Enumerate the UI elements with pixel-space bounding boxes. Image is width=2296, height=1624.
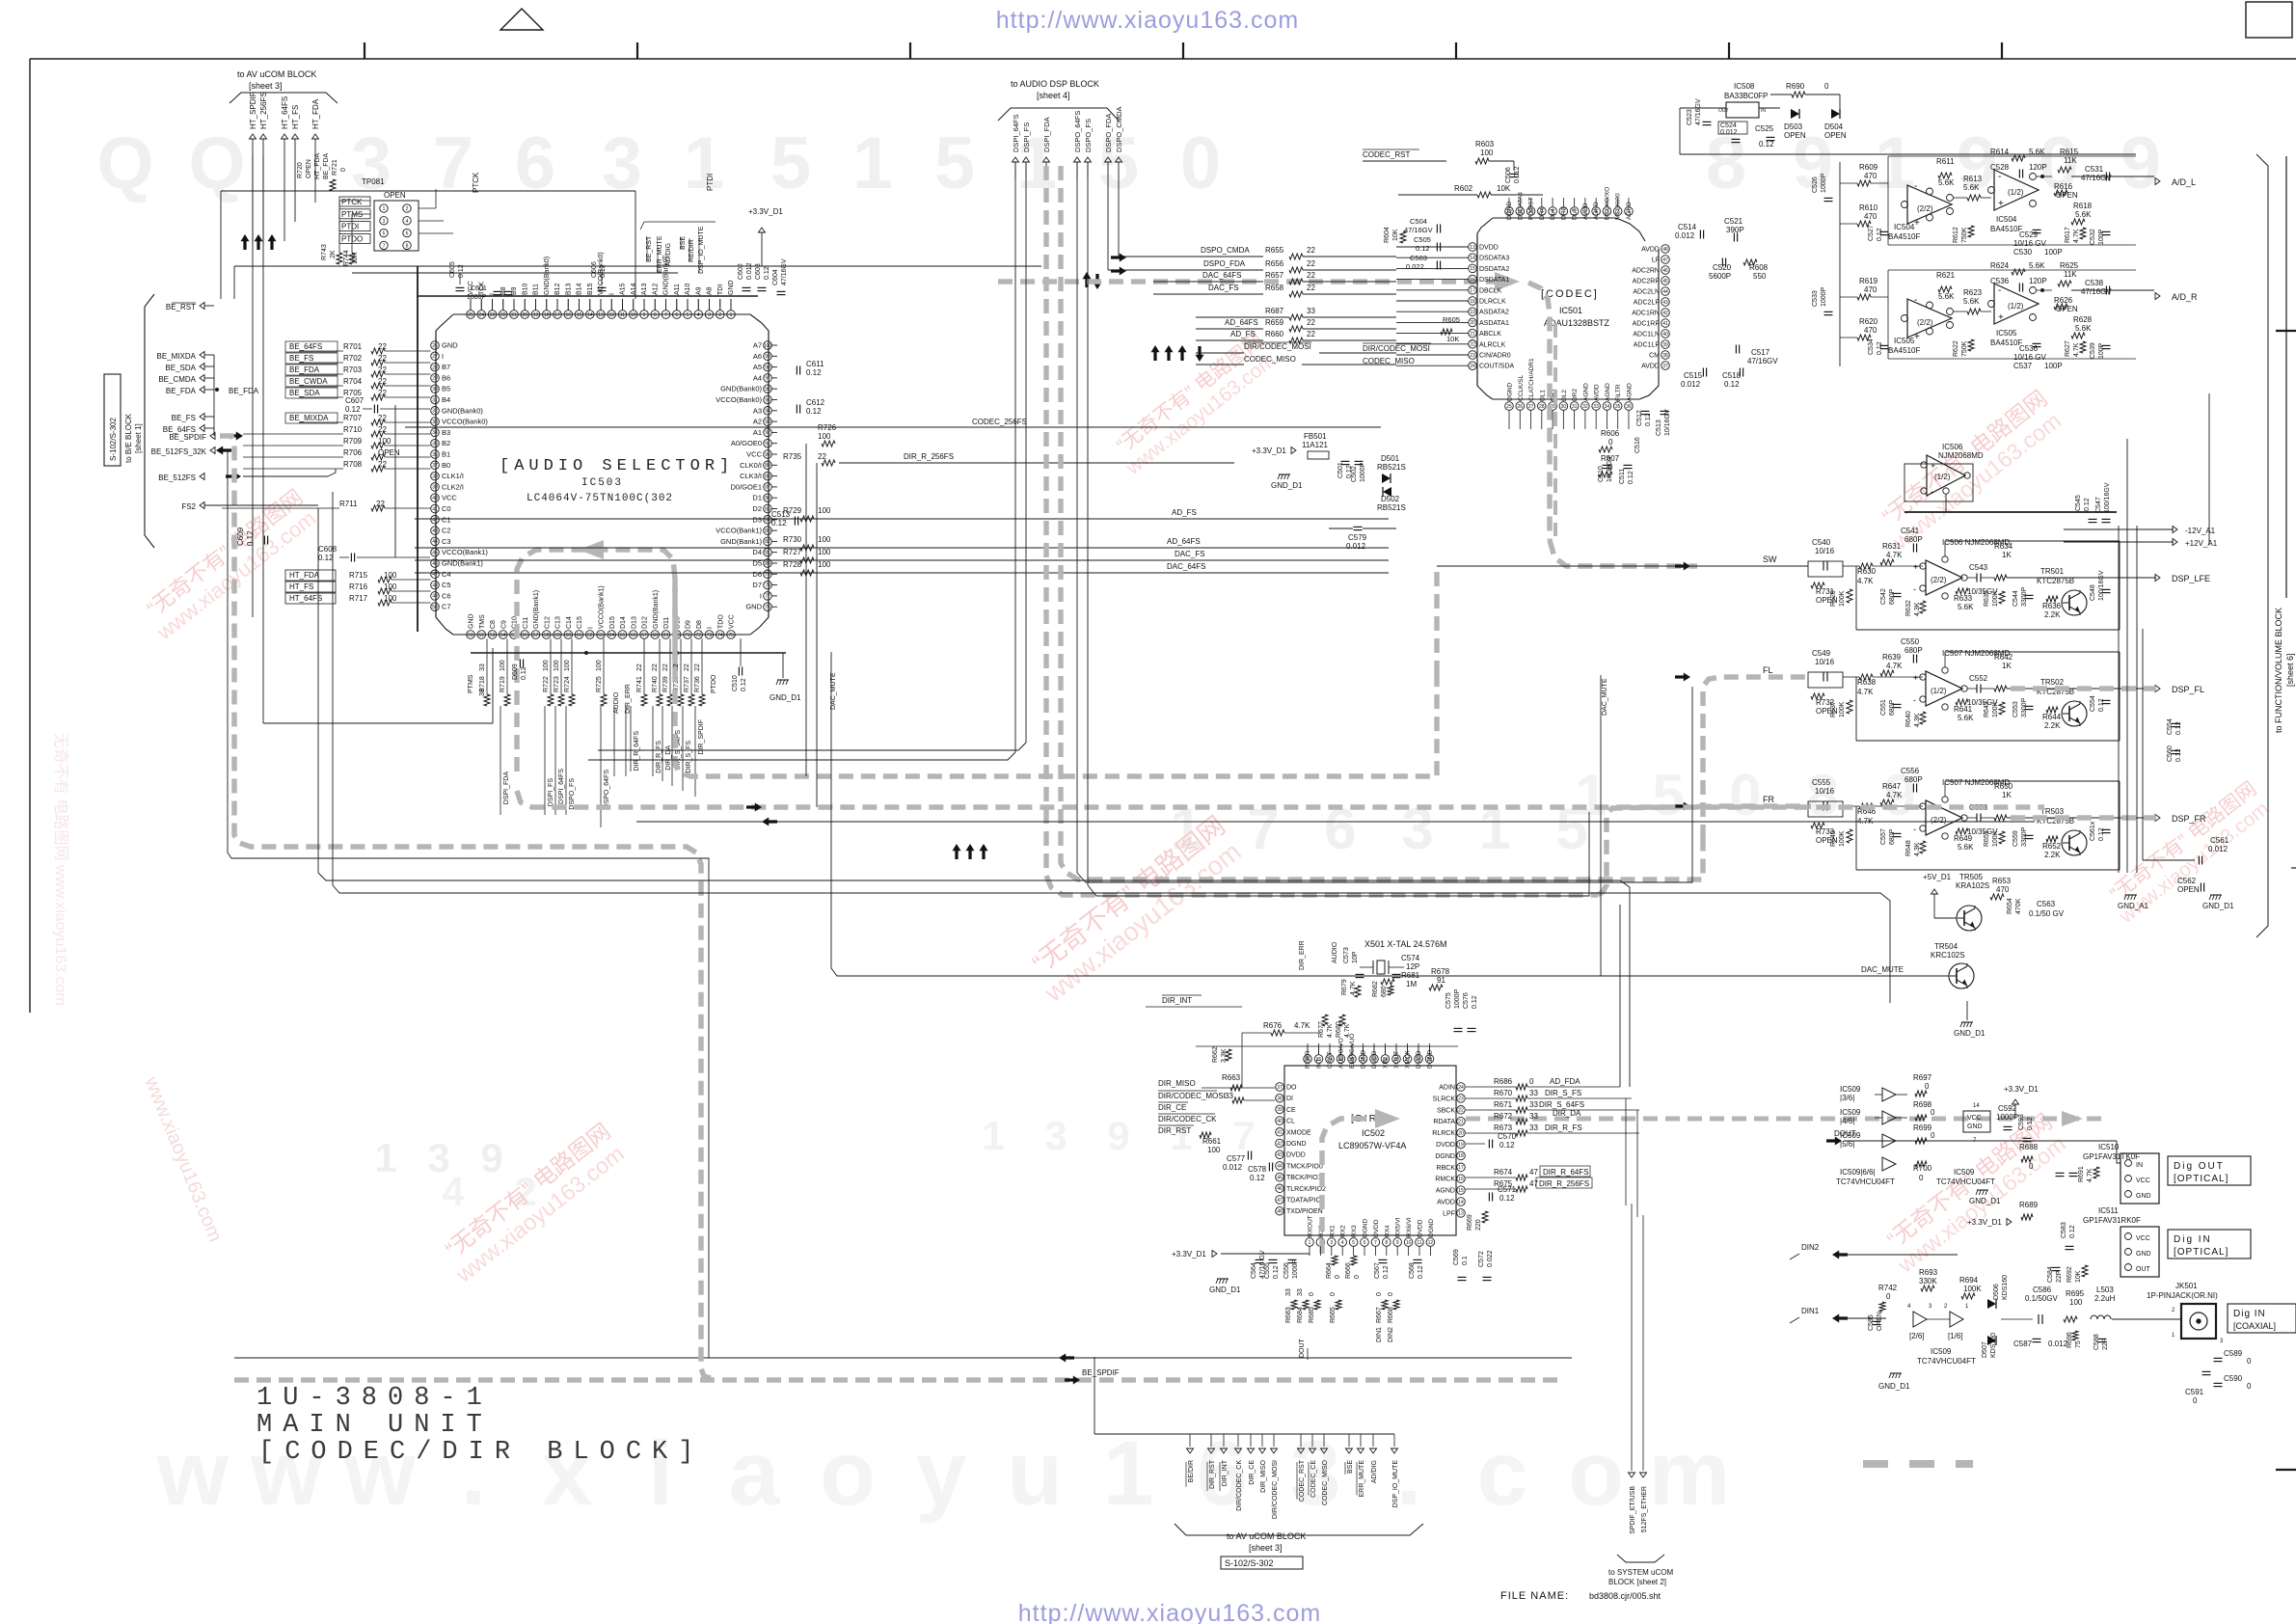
svg-text:C563: C563: [2037, 900, 2056, 908]
svg-text:A5: A5: [753, 363, 762, 371]
svg-text:R689: R689: [2019, 1201, 2039, 1209]
svg-text:BE_SPDIF: BE_SPDIF: [169, 433, 206, 442]
svg-text:27: 27: [1528, 404, 1534, 410]
svg-text:91: 91: [765, 442, 770, 447]
svg-text:48: 48: [1277, 1209, 1283, 1215]
svg-text:BE_MIXDA: BE_MIXDA: [157, 352, 197, 361]
svg-text:1000P: 1000P: [1821, 286, 1827, 307]
svg-text:47/16GV: 47/16GV: [1404, 226, 1433, 234]
svg-text:8: 8: [654, 312, 657, 318]
sheet right mid tick: [2276, 330, 2296, 332]
svg-text:C578: C578: [1248, 1165, 1267, 1174]
svg-text:FL: FL: [1763, 665, 1773, 675]
svg-text:o: o: [820, 1422, 876, 1525]
svg-text:91: 91: [1437, 976, 1445, 985]
svg-text:50: 50: [432, 605, 438, 610]
svg-text:RX4: RX4: [1384, 1225, 1391, 1237]
svg-text:22: 22: [1307, 330, 1315, 338]
svg-text:5: 5: [770, 122, 811, 204]
svg-text:to FUNCTION/VOLUME BLOCK: to FUNCTION/VOLUME BLOCK: [2274, 608, 2283, 733]
gray bus upper y805: [675, 579, 1437, 776]
svg-text:9: 9: [643, 312, 646, 318]
svg-text:TDATA/PIO3: TDATA/PIO3: [1286, 1198, 1325, 1204]
svg-text:-12V_A1: -12V_A1: [2185, 527, 2216, 535]
svg-text:AD_FDA: AD_FDA: [1550, 1077, 1580, 1086]
svg-text:R692: R692: [2066, 1266, 2073, 1283]
svg-text:R636: R636: [2042, 602, 2062, 610]
svg-text:38: 38: [1277, 1096, 1283, 1102]
svg-text:SLRCK: SLRCK: [1433, 1096, 1456, 1102]
svg-text:C515: C515: [1684, 371, 1703, 380]
svg-text:R736: R736: [694, 676, 701, 692]
svg-text:C525: C525: [1755, 124, 1774, 133]
svg-text:100: 100: [818, 560, 831, 569]
svg-text:S-102/S-302: S-102/S-302: [109, 418, 118, 461]
wire right edge verticals: [2142, 629, 2144, 860]
svg-text:4.7K: 4.7K: [1327, 1023, 1334, 1038]
IC503 top pin row 25..1 with labels: [467, 252, 736, 318]
svg-text:R673: R673: [1494, 1123, 1513, 1132]
wire IC502 bottom risers: [1309, 1246, 1310, 1256]
svg-text:0.12: 0.12: [1645, 413, 1652, 426]
svg-text:0.12: 0.12: [345, 405, 361, 414]
svg-text:5.6K: 5.6K: [1958, 603, 1974, 611]
svg-text:XMCK: XMCK: [1405, 1050, 1412, 1069]
svg-text:C539: C539: [2090, 342, 2096, 359]
svg-text:C541: C541: [1901, 527, 1920, 535]
svg-text:470: 470: [1864, 285, 1877, 294]
wire mid horizontal pair right: [227, 853, 229, 858]
svg-text:AD_FS: AD_FS: [1230, 330, 1256, 338]
svg-text:C576: C576: [1463, 992, 1470, 1009]
svg-text:52: 52: [478, 633, 484, 638]
SPDIF_ET/USB 512FS_ETHER labels: [1629, 1473, 1635, 1477]
svg-text:4: 4: [1341, 1240, 1344, 1246]
to B/E BLOCK bracket: [145, 294, 154, 548]
svg-text:DBCLK: DBCLK: [1479, 287, 1502, 294]
svg-text:3300P: 3300P: [2021, 697, 2028, 717]
svg-text:DSDATA2: DSDATA2: [1479, 266, 1509, 273]
svg-text:B7: B7: [442, 363, 450, 371]
svg-text:CLK0/I: CLK0/I: [740, 461, 762, 470]
svg-text:C15: C15: [577, 616, 583, 629]
svg-text:1000P: 1000P: [467, 294, 487, 301]
svg-text:RMCK: RMCK: [1435, 1177, 1455, 1183]
svg-text:GND: GND: [745, 603, 762, 611]
GND_D1 coax: [1890, 1372, 1902, 1374]
svg-text:GND: GND: [442, 341, 458, 350]
three up arrows: [241, 234, 250, 250]
svg-text:R603: R603: [1475, 140, 1495, 149]
svg-text:C528: C528: [1990, 163, 2010, 172]
IC501 right pin column 48..37 with labels: [1632, 245, 1669, 370]
svg-text:TP081: TP081: [362, 177, 385, 186]
svg-text:http://www.xiaoyu163.com: http://www.xiaoyu163.com: [996, 7, 1299, 34]
svg-text:TMCK/PIO0: TMCK/PIO0: [1286, 1163, 1323, 1170]
svg-text:R611: R611: [1936, 157, 1955, 166]
svg-text:TR504: TR504: [1934, 942, 1958, 951]
svg-text:750K: 750K: [1961, 340, 1968, 357]
svg-text:C8: C8: [490, 620, 497, 629]
svg-text:19: 19: [1470, 310, 1475, 315]
svg-text:D503: D503: [1784, 122, 1803, 131]
svg-text:+3.3V_D1: +3.3V_D1: [2004, 1085, 2039, 1094]
svg-text:KRA102S: KRA102S: [1956, 881, 1989, 890]
svg-text:0.12: 0.12: [1250, 1174, 1265, 1182]
svg-text:DIR/CODEC_MOSI: DIR/CODEC_MOSI: [1363, 344, 1430, 353]
svg-text:42: 42: [432, 518, 438, 524]
svg-text:R737: R737: [684, 676, 690, 692]
wire top long horizontals: [1014, 162, 1016, 752]
wire HT bundle vertical: [252, 154, 254, 617]
wire IC503 top risers: [470, 299, 472, 311]
svg-text:21: 21: [1470, 331, 1475, 337]
svg-text:5.6K: 5.6K: [2075, 210, 2092, 219]
svg-text:VCCO(Bank0): VCCO(Bank0): [442, 418, 488, 426]
svg-text:C606: C606: [591, 261, 598, 278]
svg-text:5.6K: 5.6K: [1958, 843, 1974, 852]
svg-text:23: 23: [1470, 353, 1475, 359]
svg-text:C591: C591: [2185, 1388, 2204, 1396]
svg-text:4: 4: [406, 219, 409, 225]
svg-text:17: 17: [554, 312, 560, 318]
svg-text:a: a: [729, 1422, 781, 1525]
svg-text:IC506: IC506: [1942, 443, 1963, 451]
svg-text:IC509: IC509: [1840, 1108, 1861, 1117]
svg-text:(2/2): (2/2): [1917, 318, 1933, 327]
svg-text:DSDATA3: DSDATA3: [1479, 256, 1509, 262]
svg-text:0: 0: [1729, 763, 1761, 827]
TP081 signal name boxes PTCK PTMS PTDI PTDO: [339, 197, 370, 243]
DSP_LFE output arrow: [2155, 575, 2160, 582]
svg-text:GND_D1: GND_D1: [1969, 1197, 2001, 1205]
svg-text:0.012: 0.012: [2048, 1340, 2068, 1348]
svg-text:10: 10: [631, 312, 636, 318]
svg-text:22: 22: [652, 663, 659, 671]
svg-text:+3.3V_D1: +3.3V_D1: [748, 207, 783, 216]
svg-text:43: 43: [432, 528, 438, 534]
svg-text:KDS160: KDS160: [1990, 1333, 1997, 1358]
svg-text:-: -: [1913, 825, 1916, 834]
svg-text:11: 11: [620, 312, 625, 318]
svg-text:1: 1: [730, 312, 733, 318]
IC511 optical in module: [2120, 1227, 2159, 1277]
svg-text:R639: R639: [1882, 653, 1902, 662]
svg-text:DAC_FS: DAC_FS: [1175, 550, 1205, 558]
svg-text:CODEC_MISO: CODEC_MISO: [1244, 355, 1296, 364]
IC509 gate 6/6: [1882, 1157, 1896, 1171]
svg-text:PTCK: PTCK: [472, 172, 480, 193]
svg-text:o: o: [1568, 1422, 1624, 1525]
svg-text:R690: R690: [1786, 82, 1805, 91]
svg-text:12: 12: [1428, 1240, 1434, 1246]
svg-text:0: 0: [2193, 1396, 2198, 1405]
svg-text:75: 75: [2075, 1340, 2082, 1348]
svg-text:2.2K: 2.2K: [2044, 610, 2061, 619]
svg-text:75: 75: [728, 633, 734, 638]
svg-text:R662: R662: [1212, 1046, 1219, 1063]
svg-text:DIR_INT: DIR_INT: [1222, 1459, 1229, 1486]
svg-text:+: +: [1931, 461, 1935, 471]
svg-text:R695: R695: [2066, 1289, 2085, 1298]
HT signal vertical labels: [249, 92, 320, 154]
TP081 connector block: [374, 201, 419, 251]
svg-text:CIN/ADR0: CIN/ADR0: [1479, 353, 1511, 360]
svg-text:FB501: FB501: [1304, 432, 1327, 441]
svg-text:R640: R640: [1905, 711, 1912, 727]
svg-text:RB521S: RB521S: [1377, 463, 1406, 472]
svg-text:R681: R681: [1401, 971, 1420, 980]
svg-text:R652: R652: [2042, 842, 2062, 851]
svg-text:DL3: DL3: [1572, 208, 1579, 220]
svg-text:m: m: [1649, 1422, 1730, 1525]
svg-text:R605: R605: [1443, 315, 1460, 324]
svg-text:PTDI: PTDI: [706, 174, 715, 191]
svg-text:B9: B9: [511, 286, 518, 295]
svg-text:R701: R701: [343, 342, 363, 351]
svg-text:39: 39: [1662, 342, 1668, 348]
svg-text:C587: C587: [2013, 1340, 2033, 1348]
IC503 bottom signal name labels: [500, 684, 705, 827]
svg-text:B5: B5: [442, 385, 450, 393]
svg-text:68: 68: [652, 633, 658, 638]
three up arrows mid: [953, 844, 961, 859]
svg-text:PTDI: PTDI: [341, 223, 359, 231]
wire IC508 area: [1680, 107, 1726, 109]
IC509 gate 1/6: [1950, 1312, 1963, 1327]
diode D506 KDS160: [1987, 1299, 1996, 1309]
svg-text:A15: A15: [620, 283, 627, 295]
svg-text:R704: R704: [343, 377, 363, 386]
svg-text:VCC: VCC: [729, 614, 736, 629]
svg-text:DAC_MUTE: DAC_MUTE: [830, 672, 837, 710]
svg-text:DIR_R_FS: DIR_R_FS: [1545, 1123, 1582, 1132]
svg-text:GND_D1: GND_D1: [770, 693, 801, 702]
svg-text:69: 69: [663, 633, 669, 638]
svg-text:TXD/PIOEN: TXD/PIOEN: [1286, 1208, 1323, 1215]
svg-text:1000P: 1000P: [1360, 462, 1366, 482]
svg-text:R698: R698: [1913, 1100, 1932, 1109]
svg-text:87: 87: [765, 485, 770, 491]
resistor R735 zig: [822, 460, 835, 466]
svg-text:0: 0: [1376, 1292, 1383, 1296]
svg-text:IC509: IC509: [1954, 1168, 1975, 1177]
svg-text:6: 6: [515, 122, 555, 204]
svg-text:BE_MIXDA: BE_MIXDA: [289, 414, 329, 422]
svg-text:C3: C3: [442, 537, 451, 546]
svg-text:OPEN: OPEN: [2177, 885, 2200, 894]
svg-text:11: 11: [1417, 1240, 1421, 1246]
svg-text:BE_FS: BE_FS: [289, 354, 313, 363]
svg-text:R724: R724: [564, 676, 571, 692]
svg-text:to AV uCOM BLOCK: to AV uCOM BLOCK: [237, 69, 316, 79]
svg-text:86: 86: [765, 496, 770, 501]
svg-text:33: 33: [1593, 404, 1599, 410]
svg-text:20: 20: [1458, 1130, 1464, 1136]
svg-text:39: 39: [432, 485, 438, 491]
svg-text:0: 0: [1931, 1131, 1935, 1140]
svg-text:R717: R717: [349, 594, 368, 603]
svg-text:4.7K: 4.7K: [1294, 1021, 1310, 1030]
svg-text:66: 66: [631, 633, 636, 638]
svg-text:14: 14: [587, 312, 593, 318]
svg-text:100K: 100K: [1839, 830, 1846, 847]
svg-text:12P: 12P: [1406, 962, 1419, 971]
svg-text:BA4510F: BA4510F: [1990, 338, 2022, 347]
svg-text:R619: R619: [1859, 277, 1878, 285]
wire DIR long verticals right: [1625, 1098, 1627, 1205]
svg-text:D4: D4: [752, 548, 762, 556]
svg-text:XOUT: XOUT: [1393, 1051, 1400, 1069]
svg-text:100: 100: [554, 660, 560, 671]
svg-text:R604: R604: [1384, 227, 1391, 243]
svg-text:R613: R613: [1963, 175, 1983, 183]
svg-text:22: 22: [684, 663, 690, 671]
DSP signal vertical labels: [1012, 106, 1123, 178]
svg-text:C547: C547: [2095, 497, 2102, 513]
svg-text:100: 100: [564, 660, 571, 671]
gray bus to FL strip: [1703, 677, 1811, 839]
svg-text:A/D_L: A/D_L: [2172, 177, 2196, 187]
svg-text:BE_SDA: BE_SDA: [165, 364, 196, 372]
svg-text:470: 470: [1864, 172, 1877, 180]
svg-text:VCCO(Bank1): VCCO(Bank1): [599, 585, 606, 629]
svg-text:w: w: [156, 1422, 230, 1525]
svg-text:DIR/CODEC_MOSI: DIR/CODEC_MOSI: [1244, 342, 1311, 351]
svg-text:B8: B8: [500, 286, 507, 295]
svg-text:DSPI_FS: DSPI_FS: [548, 778, 554, 807]
svg-text:C514: C514: [1678, 223, 1697, 231]
IC509 inverter gates 3/6 4/6 5/6: [1840, 1085, 1907, 1149]
svg-text:KDS160: KDS160: [2002, 1275, 2009, 1300]
svg-text:44: 44: [1662, 289, 1668, 295]
svg-text:10: 10: [1406, 1240, 1412, 1246]
svg-text:0.12: 0.12: [2084, 498, 2091, 511]
svg-text:IC504: IC504: [1894, 223, 1915, 231]
svg-text:R670: R670: [1494, 1089, 1513, 1097]
svg-text:R648: R648: [1905, 840, 1912, 856]
svg-text:OPEN: OPEN: [1784, 131, 1806, 140]
svg-text:512FS_ETHER: 512FS_ETHER: [1641, 1486, 1648, 1532]
svg-text:DIR_ERR: DIR_ERR: [1299, 940, 1306, 970]
svg-text:DGND: DGND: [1361, 1050, 1367, 1069]
svg-text:C593: C593: [2018, 1114, 2025, 1130]
svg-text:SW: SW: [1763, 555, 1777, 564]
svg-text:41: 41: [1277, 1130, 1283, 1136]
svg-text:C572: C572: [1478, 1251, 1485, 1267]
svg-text:CLK1/I: CLK1/I: [442, 472, 464, 480]
svg-text:A14: A14: [631, 283, 637, 295]
svg-text:ADC1LP: ADC1LP: [1634, 342, 1661, 349]
svg-text:A/D_R: A/D_R: [2172, 292, 2198, 302]
svg-text:0.12: 0.12: [458, 264, 465, 278]
svg-text:680: 680: [1381, 986, 1388, 997]
wire IC503 bottom bus: [471, 652, 786, 654]
svg-text:R665: R665: [1330, 1307, 1337, 1323]
svg-text:R631: R631: [1882, 542, 1902, 551]
svg-text:R625: R625: [2060, 261, 2079, 270]
svg-text:DVDD: DVDD: [1479, 245, 1499, 252]
svg-text:0: 0: [1330, 1292, 1337, 1296]
svg-text:71: 71: [685, 633, 690, 638]
svg-text:100: 100: [1480, 149, 1494, 157]
gray bus IC501 to SW strip: [1550, 540, 1697, 566]
svg-text:R730: R730: [783, 535, 802, 544]
svg-text:Q: Q: [188, 122, 245, 204]
svg-text:84: 84: [765, 518, 770, 524]
S-102/S-302 rotated box label: [104, 374, 121, 466]
svg-text:22P: 22P: [2056, 1270, 2063, 1283]
svg-text:IC509|6/6|: IC509|6/6|: [1840, 1168, 1876, 1177]
svg-text:R694: R694: [1959, 1276, 1979, 1285]
svg-text:DIR_RST: DIR_RST: [1158, 1126, 1191, 1135]
svg-text:A1: A1: [753, 428, 762, 437]
svg-text:29: 29: [432, 376, 438, 382]
svg-text:C575: C575: [1445, 992, 1452, 1009]
svg-text:R688: R688: [2019, 1143, 2039, 1151]
-12V_A1 arrow: [2173, 527, 2177, 533]
svg-text:14: 14: [1973, 1103, 1980, 1109]
Dig IN OPTICAL box: [2168, 1230, 2251, 1259]
svg-text:0.12: 0.12: [1273, 1265, 1280, 1279]
svg-text:42: 42: [1277, 1141, 1283, 1147]
svg-text:0.12: 0.12: [2069, 1225, 2076, 1238]
wire codec right bus verticals: [1831, 154, 1833, 366]
svg-text:AVDD: AVDD: [1641, 364, 1660, 370]
svg-text:GND_D1: GND_D1: [1209, 1286, 1241, 1294]
svg-text:R720: R720: [297, 162, 304, 178]
svg-text:35: 35: [1615, 404, 1621, 410]
svg-text:7: 7: [1374, 1240, 1377, 1246]
svg-text:5.6K: 5.6K: [2029, 148, 2045, 156]
svg-text:C551: C551: [1880, 699, 1887, 716]
svg-text:CODEC_RST: CODEC_RST: [1299, 1459, 1306, 1502]
svg-text:100: 100: [818, 535, 831, 544]
svg-text:CODEC_CE: CODEC_CE: [1310, 1460, 1317, 1498]
svg-text:220: 220: [1475, 1219, 1482, 1231]
svg-text:CODEC_256FS: CODEC_256FS: [972, 418, 1027, 426]
svg-text:BE_FDA: BE_FDA: [166, 387, 197, 395]
svg-text:R654: R654: [2007, 898, 2013, 914]
svg-text:100P: 100P: [2044, 248, 2063, 257]
svg-text:0.1/50GV: 0.1/50GV: [2025, 1294, 2058, 1303]
svg-text:0: 0: [1309, 1292, 1315, 1296]
svg-text:37: 37: [1662, 364, 1668, 369]
JK501 coax jack: [2181, 1304, 2216, 1339]
svg-text:21: 21: [1458, 1120, 1464, 1125]
svg-text:BA4510F: BA4510F: [1888, 232, 1920, 241]
svg-text:33: 33: [1529, 1112, 1538, 1121]
svg-text:C0: C0: [442, 504, 451, 513]
svg-text:[sheet 1]: [sheet 1]: [134, 423, 143, 453]
svg-text:VCC: VCC: [746, 450, 762, 459]
svg-text:C608: C608: [318, 545, 338, 554]
svg-text:ADC1LN: ADC1LN: [1633, 332, 1660, 338]
svg-text:0.012: 0.012: [746, 262, 753, 280]
svg-text:ADC2LN: ADC2LN: [1633, 289, 1660, 296]
revision triangle marker: [500, 9, 543, 30]
svg-text:DGND: DGND: [1363, 1219, 1369, 1237]
svg-text:XIN: XIN: [1383, 1058, 1390, 1069]
svg-text:DGND: DGND: [1507, 383, 1514, 401]
svg-text:15: 15: [1470, 266, 1475, 272]
svg-text:47: 47: [1529, 1168, 1538, 1177]
svg-text:R676: R676: [1263, 1021, 1283, 1030]
svg-text:0.12: 0.12: [764, 266, 770, 280]
svg-text:1: 1: [852, 122, 893, 204]
svg-text:0.12: 0.12: [1418, 1265, 1424, 1279]
+12V_A1 arrow: [2173, 539, 2177, 546]
